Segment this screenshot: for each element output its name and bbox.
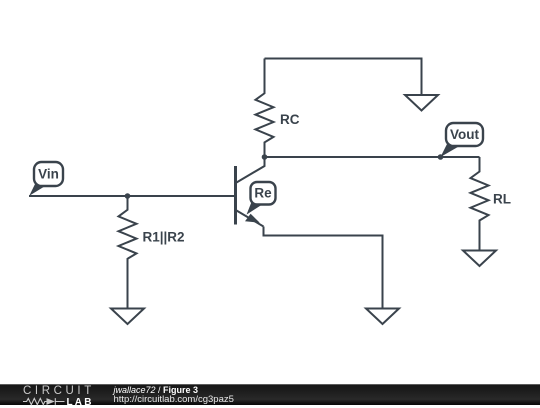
- Q1 collector lead: [237, 157, 265, 183]
- flag Vout: [441, 123, 484, 157]
- ground GND2 (under RL): [463, 251, 496, 267]
- svg-text:Re: Re: [254, 186, 272, 201]
- ground GND1 (top right): [405, 95, 438, 111]
- CircuitLab logo: [22, 385, 97, 405]
- wire base (Vin to Q1): [29, 195, 235, 197]
- Q1 base bar: [234, 166, 237, 225]
- svg-text:R1||R2: R1||R2: [143, 230, 185, 245]
- node Vout dot: [438, 154, 444, 160]
- svg-text:RC: RC: [280, 112, 300, 127]
- svg-text:Vout: Vout: [450, 127, 479, 142]
- Q1 emitter lead: [237, 211, 264, 227]
- ground GND3 (under R1||R2): [111, 309, 144, 325]
- node base junction dot: [125, 193, 131, 199]
- ground GND4 (emitter): [366, 309, 399, 325]
- svg-text:RL: RL: [493, 192, 511, 207]
- wire top rail (RC top to ground): [265, 58, 422, 60]
- transistor Q1 NPN: [236, 157, 265, 227]
- wire emitter to ground: [264, 227, 383, 309]
- flag Re: [247, 182, 276, 215]
- logo resistor + diode glyph: [23, 397, 67, 406]
- wire collector rail to RL: [265, 156, 480, 158]
- flag Vin: [29, 162, 63, 196]
- resistor R1||R2: [119, 196, 137, 309]
- wire top-right vertical to ground: [421, 58, 423, 96]
- svg-text:Vin: Vin: [38, 167, 59, 182]
- node collector junction dot: [262, 154, 268, 160]
- resistor RL: [471, 157, 489, 251]
- footer text: [114, 386, 234, 405]
- footer bar: [0, 384, 540, 405]
- resistor RC: [256, 59, 274, 158]
- Q1 emitter arrow: [245, 214, 260, 223]
